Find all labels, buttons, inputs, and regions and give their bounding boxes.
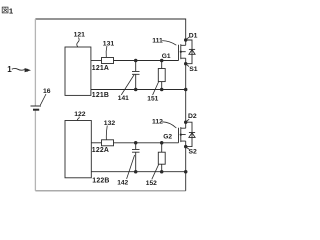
svg-text:111: 111 bbox=[152, 37, 163, 44]
svg-text:122B: 122B bbox=[92, 178, 109, 185]
node S1 bbox=[184, 62, 187, 65]
wire gate net G2 bbox=[114, 142, 179, 144]
svg-text:131: 131 bbox=[103, 40, 115, 47]
svg-text:122A: 122A bbox=[92, 147, 109, 154]
outer enclosure wire: bottom return rail (faded in scan) bbox=[35, 190, 185, 192]
junction dots at capacitor 142 bbox=[134, 141, 138, 145]
svg-text:122: 122 bbox=[74, 111, 86, 118]
resistor 131 bbox=[102, 58, 114, 64]
svg-text:142: 142 bbox=[117, 180, 128, 187]
svg-text:G2: G2 bbox=[163, 134, 172, 141]
wire 121A to gate resistor bbox=[91, 60, 102, 62]
junction dots at resistor 151 bbox=[160, 59, 164, 63]
svg-text:D2: D2 bbox=[188, 113, 197, 120]
battery 16 bbox=[31, 105, 42, 107]
node S2 bbox=[184, 145, 187, 148]
wire gate net G1 bbox=[114, 60, 179, 62]
transistor 111 (high-side MOSFET) bbox=[179, 40, 186, 64]
wire 122A to gate resistor bbox=[91, 142, 101, 144]
capacitor 142 bbox=[132, 143, 140, 172]
capacitor 141 bbox=[132, 61, 140, 90]
wire rail S2 to bottom return bbox=[185, 147, 187, 172]
svg-text:1: 1 bbox=[7, 65, 12, 74]
junction dot 122B net to S2 rail bbox=[184, 170, 188, 174]
junction dot 121B net to S1 rail bbox=[184, 88, 188, 92]
wire rail S1 to D2 bbox=[185, 64, 187, 122]
driver block 121 bbox=[65, 47, 91, 95]
wire 122B source-reference net bbox=[91, 171, 185, 173]
resistor 152 bbox=[161, 143, 163, 172]
svg-text:121: 121 bbox=[74, 32, 86, 39]
driver block 122 bbox=[65, 121, 91, 178]
svg-text:D1: D1 bbox=[189, 33, 198, 40]
resistor 151 bbox=[161, 61, 163, 90]
svg-text:S1: S1 bbox=[189, 66, 198, 73]
svg-text:152: 152 bbox=[146, 180, 157, 187]
outer enclosure wire: left rail (faded in scan) bbox=[34, 19, 36, 191]
junction dots at resistor 152 bbox=[160, 141, 164, 145]
outer enclosure wire: top rail bbox=[35, 19, 185, 40]
transistor 112 (low-side MOSFET) bbox=[179, 122, 186, 146]
node D1 bbox=[184, 38, 187, 41]
wire right rail below S2 junction bbox=[185, 172, 187, 191]
svg-text:121B: 121B bbox=[92, 92, 109, 99]
svg-text:151: 151 bbox=[147, 96, 158, 103]
body diode of 111 bbox=[186, 40, 195, 64]
junction dots on gate wire / 121B wire at capacitor 141 bbox=[134, 59, 138, 63]
wire 121B source-reference net bbox=[91, 89, 186, 91]
svg-text:G1: G1 bbox=[162, 53, 171, 60]
svg-text:121A: 121A bbox=[92, 65, 109, 72]
resistor 132 bbox=[102, 140, 114, 146]
body diode of 112 bbox=[186, 122, 195, 146]
svg-text:16: 16 bbox=[43, 88, 51, 95]
svg-text:141: 141 bbox=[118, 95, 129, 102]
svg-text:S2: S2 bbox=[189, 149, 198, 156]
svg-text:132: 132 bbox=[104, 120, 116, 127]
node D2 bbox=[184, 121, 187, 124]
svg-text:112: 112 bbox=[152, 118, 163, 125]
figure title 図1 bbox=[2, 7, 8, 13]
